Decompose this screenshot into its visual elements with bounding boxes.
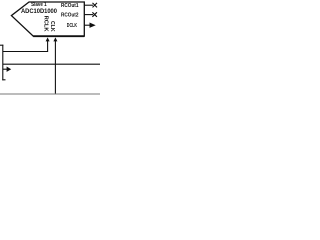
wire bottom stub	[2, 79, 5, 81]
svg-text:RCLK: RCLK	[42, 16, 48, 33]
wire CLK vertical	[54, 41, 56, 94]
arrowhead into CLK pin	[53, 37, 57, 41]
wire RCLK horizontal	[3, 51, 48, 53]
arrowhead DCLK output	[90, 23, 96, 28]
arrowhead on stub	[7, 67, 12, 72]
svg-text:DCLK: DCLK	[67, 23, 77, 29]
IC U1 bottom edge (thick)	[33, 35, 84, 37]
svg-text:ADC10D1000: ADC10D1000	[21, 8, 57, 15]
wire arrow stub	[3, 68, 7, 70]
pin DCLK wire	[84, 24, 90, 26]
svg-text:RCOut1: RCOut1	[61, 3, 79, 9]
no-connect X on RCOut1	[93, 3, 98, 8]
svg-text:CLK: CLK	[49, 21, 55, 32]
arrowhead into RCLK pin	[46, 37, 50, 41]
svg-text:RCOut2: RCOut2	[61, 13, 79, 19]
border bottom grey line	[0, 93, 100, 95]
wire clock trunk vertical	[2, 45, 4, 81]
IC U1 Slave 1 ADC10D1000 outline	[11, 2, 84, 36]
wire clock entry horizontal	[0, 44, 3, 46]
pin RCOut2 wire	[84, 14, 93, 16]
no-connect X on RCOut2	[92, 12, 97, 16]
pin RCOut1 wire	[84, 4, 93, 6]
wire clock branch horizontal	[3, 63, 100, 65]
wire RCLK vertical	[47, 41, 49, 52]
